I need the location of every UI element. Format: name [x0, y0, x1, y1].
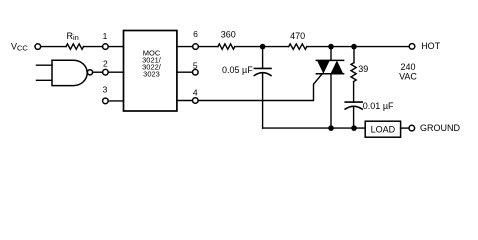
wire LOAD to GROUND terminal — [401, 127, 409, 129]
label 240 VAC — [399, 62, 417, 82]
svg-text:470: 470 — [290, 31, 305, 41]
node B junction — [328, 44, 334, 50]
wire R 39 to capacitor 0.01uF — [353, 82, 355, 103]
svg-text:Rin: Rin — [67, 31, 79, 42]
pin 5 — [193, 60, 199, 75]
wire Rin to pin 1 — [84, 46, 103, 48]
svg-text:5: 5 — [193, 60, 198, 70]
wire pin 3 to U1 — [108, 100, 123, 102]
node A junction — [260, 44, 266, 50]
resistor 470 — [289, 31, 307, 49]
svg-text:2: 2 — [103, 58, 108, 68]
svg-text:1: 1 — [103, 31, 108, 41]
NAND gate G1 — [37, 60, 93, 85]
svg-text:4: 4 — [193, 87, 198, 97]
net VCC label — [11, 41, 28, 52]
triac Q1 — [316, 47, 343, 129]
svg-text:0.05 µF: 0.05 µF — [222, 65, 253, 75]
pin 4 — [193, 87, 199, 103]
optocoupler U1 MOC3021/3022/3023 — [124, 31, 177, 112]
bottom wire to LOAD — [263, 127, 366, 129]
wire U1 to pin 4 — [177, 100, 193, 102]
svg-text:6: 6 — [193, 29, 198, 39]
capacitor 0.05uF — [222, 47, 271, 129]
resistor 39 — [351, 47, 368, 82]
wire R 470 to node B — [307, 46, 331, 48]
pin 1 — [103, 31, 109, 50]
svg-text:GROUND: GROUND — [420, 123, 460, 133]
svg-text:MOC3021/3022/3023: MOC3021/3022/3023 — [142, 49, 162, 79]
terminal HOT — [409, 41, 441, 51]
wire node A to R 470 — [263, 46, 289, 48]
svg-text:3: 3 — [103, 84, 108, 94]
LOAD box — [365, 121, 400, 137]
terminal GROUND — [409, 123, 460, 133]
wire U1 to pin 5 — [177, 71, 193, 73]
wire VCC to Rin — [41, 46, 66, 48]
junction bottom C — [351, 125, 357, 131]
svg-text:39: 39 — [358, 64, 368, 74]
pin 3 — [103, 84, 109, 103]
wire pin 4 to triac gate — [198, 74, 322, 101]
junction bottom B — [328, 125, 334, 131]
wire pin 6 to R 360 — [198, 46, 218, 48]
svg-text:240VAC: 240VAC — [399, 62, 417, 82]
resistor Rin — [66, 31, 84, 49]
wire node B to node C — [331, 46, 354, 48]
terminal VCC — [35, 44, 41, 50]
pin 2 — [103, 58, 109, 75]
svg-text:LOAD: LOAD — [371, 124, 396, 134]
pin 6 — [193, 29, 199, 50]
wire R 360 to node A — [235, 46, 263, 48]
node C junction — [351, 44, 357, 50]
svg-text:VCC: VCC — [11, 41, 28, 52]
svg-text:0.01 µF: 0.01 µF — [363, 101, 394, 111]
wire G1 output to pin 2 — [93, 71, 103, 73]
svg-text:360: 360 — [221, 30, 236, 40]
svg-text:HOT: HOT — [421, 41, 441, 51]
wire U1 to pin 6 — [177, 46, 193, 48]
wire node C to HOT terminal — [354, 46, 409, 48]
wire pin 2 to U1 — [108, 71, 123, 73]
capacitor 0.01uF — [345, 101, 394, 128]
resistor 360 — [218, 30, 236, 50]
wire pin 1 to U1 — [108, 46, 123, 48]
